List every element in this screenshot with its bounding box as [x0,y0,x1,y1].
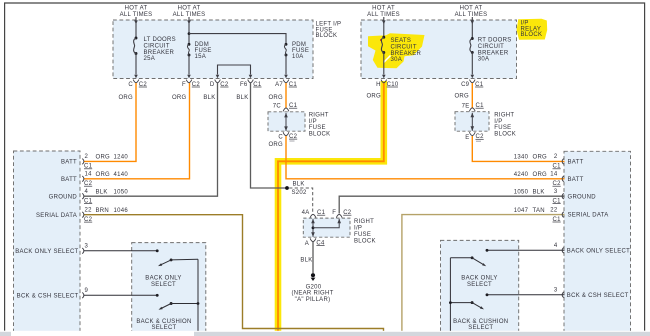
feed wire into RT DOORS breaker [471,17,475,39]
svg-text:SELECT: SELECT [151,282,176,288]
svg-text:ORG: ORG [533,172,548,178]
svg-text:BREAKER: BREAKER [144,50,175,56]
svg-text:BLOCK: BLOCK [309,131,331,137]
internal wiring of ground fuse box [311,219,341,237]
wire BLK 1050 from right panel GROUND to F terminal [339,196,564,213]
svg-text:25A: 25A [144,56,156,62]
svg-text:FUSE: FUSE [195,48,212,54]
svg-text:1340: 1340 [514,155,529,161]
circuit breaker SEATS 30A [381,36,421,75]
svg-text:ORG: ORG [172,95,187,101]
svg-text:BLK: BLK [300,258,312,264]
svg-text:4: 4 [554,243,558,249]
white slash gap in seats highlight [384,56,391,63]
svg-text:1240: 1240 [114,155,129,161]
svg-text:ORG: ORG [268,95,283,101]
terminal F at fuse block edge [182,75,200,88]
svg-text:(NEAR RIGHT: (NEAR RIGHT [291,291,333,297]
connector C1 label at 7E box [476,103,485,109]
svg-text:BCK & CSH SELECT: BCK & CSH SELECT [567,293,629,299]
svg-text:HOT AT: HOT AT [372,6,395,12]
terminal A7 at fuse block edge [275,75,297,88]
svg-text:14: 14 [550,172,558,178]
svg-text:ORG: ORG [533,155,548,161]
svg-text:ORG: ORG [268,142,283,148]
highlighted ORG wire from seats breaker (yellow band) [278,81,384,331]
svg-text:HOT AT: HOT AT [460,6,483,12]
wire label ORG 7C [268,95,283,109]
right I/P fuse block label (7C box) [309,113,331,138]
wire TAN 1047 from right panel SERIAL DATA [402,215,565,332]
left seat switch dashed box [132,243,206,333]
svg-text:A7: A7 [275,82,283,88]
right I/P fuse block label (7E box) [494,113,516,138]
svg-text:BATT: BATT [568,177,584,183]
wire ORG from F to left panel BATT 14 [84,83,190,179]
left body control panel dashed box [14,151,81,332]
svg-text:SELECT: SELECT [468,325,493,331]
svg-text:ALL TIMES: ALL TIMES [173,12,206,18]
wire from left panel pin 3 to left switch [84,249,159,252]
svg-text:ALL TIMES: ALL TIMES [120,12,153,18]
svg-text:ORG: ORG [118,95,133,101]
hot at all times label 4 [455,6,488,18]
svg-text:SERIAL DATA: SERIAL DATA [36,213,77,219]
svg-text:SELECT: SELECT [151,325,176,331]
hot at all times label 2 [173,6,206,18]
svg-text:14: 14 [85,172,93,178]
svg-text:7E: 7E [462,103,470,109]
terminal A out of ground fuse box [305,238,325,247]
ground G200 [291,273,333,303]
junction node in fuse block [188,32,191,35]
svg-text:TAN: TAN [533,208,545,214]
left I/P fuse block dashed box (top-left) [113,20,313,79]
left panel BATT row pin 2 [61,154,128,170]
dashed lead from S202 to 4A [289,188,313,214]
highlighter blob over SEATS circuit breaker [368,33,425,68]
svg-text:ORG: ORG [96,155,111,161]
wire label ORG 7E [454,94,469,110]
left panel SERIAL DATA row pin 22 [36,207,128,223]
svg-text:1050: 1050 [514,189,529,195]
wire ORG from C9 to 7E fuse block connector [471,83,473,108]
wire ORG 4240 from 7C box to right panel BATT 14 [286,136,565,179]
svg-text:CIRCUIT: CIRCUIT [391,44,417,50]
svg-text:BACK ONLY SELECT: BACK ONLY SELECT [15,249,78,255]
feed wire into DDM fuse [187,17,191,44]
hot at all times label 1 [120,6,153,18]
svg-text:LT DOORS: LT DOORS [144,37,176,43]
svg-text:BLK: BLK [96,189,108,195]
terminal D at fuse block edge [210,75,229,88]
circuit breaker LT DOORS 25A [134,37,176,75]
svg-text:BRN: BRN [96,208,110,214]
svg-text:1046: 1046 [114,208,129,214]
right I/P fuse block small box (top-center, 7C) [268,112,305,131]
right panel BATT row pin 2 [514,154,584,170]
wire BLK from F6 to splice S202 [251,83,288,188]
connector C1 label at 7C box [289,103,298,109]
svg-text:4: 4 [85,189,89,195]
svg-text:GROUND: GROUND [568,194,597,200]
right panel BCK &amp; CSH SELECT row pin 3 [554,288,629,299]
fuse PDM 10A [284,42,309,75]
feed wire into SEATS breaker [382,17,386,37]
svg-text:15A: 15A [195,54,207,60]
svg-text:7C: 7C [273,103,282,109]
svg-text:CIRCUIT: CIRCUIT [478,44,504,50]
right back & cushion select switch [450,301,508,331]
right back only select switch [450,256,497,287]
svg-text:4240: 4240 [514,172,529,178]
svg-text:BACK ONLY: BACK ONLY [461,276,497,282]
terminal H at relay block edge [376,75,399,88]
svg-text:A: A [305,241,309,247]
svg-text:BREAKER: BREAKER [478,50,509,56]
svg-text:2: 2 [85,154,89,160]
svg-text:PDM: PDM [292,42,306,48]
svg-text:ORG: ORG [366,94,381,100]
svg-text:30A: 30A [391,57,403,63]
wire from right switch to right panel pin 4 [486,249,565,252]
svg-text:BREAKER: BREAKER [391,51,422,57]
svg-text:C9: C9 [461,82,470,88]
svg-text:BLK: BLK [236,95,248,101]
left panel BCK &amp; CSH SELECT row pin 9 [17,288,89,299]
svg-text:"A" PILLAR): "A" PILLAR) [295,297,331,303]
right panel GROUND row pin 3 [514,189,596,205]
svg-text:BLK: BLK [203,95,215,101]
splice S202 [285,182,307,196]
wire ORG 1340 from 7E box to right panel BATT 2 [472,136,564,161]
svg-text:30A: 30A [478,57,490,63]
svg-text:BACK ONLY SELECT: BACK ONLY SELECT [567,248,630,254]
highlighter mark on I/P relay block label [517,19,548,40]
left switch bus wire [197,259,200,332]
svg-text:C: C [278,135,283,141]
wire ORG from A7 to 7C fuse block connector [285,83,287,109]
svg-text:S202: S202 [292,190,308,196]
wire from right switch to right panel pin 3 [486,293,565,296]
svg-text:BACK & CUSHION: BACK & CUSHION [453,319,508,325]
svg-text:I/P: I/P [309,119,317,125]
svg-text:BCK & CSH SELECT: BCK & CSH SELECT [17,293,79,299]
svg-text:9: 9 [85,288,89,294]
svg-text:DDM: DDM [195,42,210,48]
wire BLK from A to ground G200 [312,242,314,273]
internal wire through 7C box [284,113,288,131]
svg-text:I/P: I/P [494,119,502,125]
svg-text:4A: 4A [302,210,310,216]
svg-text:3: 3 [554,189,558,195]
hot at all times label 3 [367,6,400,18]
svg-text:22: 22 [550,207,558,213]
right seat switch dashed box [441,240,519,332]
terminal C at fuse block edge [128,75,147,88]
right panel SERIAL DATA row pin 22 [514,207,609,223]
left panel BATT row pin 14 [61,172,128,188]
svg-text:FUSE: FUSE [494,125,511,131]
terminal F6 at fuse block edge [240,75,262,88]
right I/P fuse block small box (top-right, 7E) [455,112,489,132]
right body control panel dashed box [564,151,631,332]
svg-text:FUSE: FUSE [354,232,371,238]
svg-text:4140: 4140 [114,172,129,178]
svg-text:E: E [465,135,469,141]
right switch bus wire [449,258,452,332]
svg-text:I/P: I/P [354,226,362,232]
svg-text:BLOCK: BLOCK [494,131,516,137]
wire BLK from D to left panel GROUND 4 [84,83,218,196]
internal ground bracket joining D and F6 [218,65,251,75]
svg-text:3: 3 [554,288,558,294]
terminal into 7C box top [283,108,289,112]
left panel GROUND row pin 4 [49,189,129,205]
terminal into 7E box top [469,108,475,112]
right I/P fuse block small box (center, ground) [303,218,350,237]
highlighted ORG wire core [278,83,384,331]
internal wire through 7E box [471,113,475,131]
svg-text:ALL TIMES: ALL TIMES [367,12,400,18]
svg-text:RIGHT: RIGHT [494,113,514,119]
feed wire into LT DOORS breaker [134,17,138,38]
svg-text:FUSE: FUSE [309,125,326,131]
left I/P fuse block name label [316,21,342,39]
terminal 4A into ground fuse box [302,210,326,218]
svg-text:22: 22 [85,207,93,213]
right panel BATT row pin 14 [514,172,584,188]
terminal C9 at relay block edge [461,75,484,88]
circuit breaker RT DOORS 30A [470,37,512,74]
svg-text:ORG: ORG [454,94,469,100]
svg-text:F6: F6 [240,82,248,88]
svg-text:F: F [182,82,186,88]
svg-text:H: H [376,82,381,88]
svg-text:BATT: BATT [568,160,584,166]
right I/P fuse block label (ground box) [354,219,376,245]
svg-text:2: 2 [554,154,558,160]
svg-text:ALL TIMES: ALL TIMES [455,12,488,18]
red dot artifact near seats breaker [380,39,382,41]
svg-text:FUSE: FUSE [292,48,309,54]
left panel BACK ONLY SELECT row pin 3 [15,244,88,255]
wire ORG from C to left panel BATT 2 [84,83,137,161]
svg-text:BACK ONLY: BACK ONLY [145,276,181,282]
svg-text:CIRCUIT: CIRCUIT [144,43,170,49]
wire from left panel pin 9 to left switch [84,294,159,297]
svg-text:F: F [332,210,336,216]
svg-text:ORG: ORG [96,172,111,178]
left back only select switch [145,258,198,287]
svg-text:RT DOORS: RT DOORS [478,38,512,44]
svg-text:SERIAL DATA: SERIAL DATA [568,213,609,219]
svg-text:BATT: BATT [61,160,77,166]
left back & cushion select switch [136,302,198,331]
svg-text:BLK: BLK [533,189,545,195]
svg-text:BACK & CUSHION: BACK & CUSHION [136,319,191,325]
svg-text:10A: 10A [292,54,304,60]
svg-text:RIGHT: RIGHT [354,219,374,225]
svg-text:BLOCK: BLOCK [521,32,543,38]
fuse DDM 15A [187,42,211,75]
I/P relay block name label [521,21,543,38]
terminal E out of 7E box bottom [465,132,484,141]
svg-text:HOT AT: HOT AT [178,6,201,12]
svg-text:SELECT: SELECT [467,282,492,288]
svg-text:GROUND: GROUND [49,194,78,200]
bottom scrollbar [0,331,650,336]
svg-text:D: D [210,82,215,88]
svg-text:BATT: BATT [61,177,77,183]
svg-text:HOT AT: HOT AT [125,6,148,12]
svg-text:1050: 1050 [114,189,129,195]
svg-text:G200: G200 [306,284,322,290]
svg-text:SEATS: SEATS [391,38,412,44]
terminal C out of 7C box bottom [278,132,297,141]
svg-text:BLOCK: BLOCK [354,239,376,245]
svg-text:BLK: BLK [293,182,305,188]
terminal F into ground fuse box [332,210,352,218]
wire from junction to PDM fuse [189,34,286,45]
wire BRN 1046 from left panel SERIAL DATA [84,215,384,332]
svg-text:C: C [128,82,133,88]
svg-text:BLOCK: BLOCK [316,33,338,39]
I/P relay block dashed box (top-right) [361,20,517,79]
svg-text:1047: 1047 [514,208,529,214]
svg-text:3: 3 [85,244,89,250]
right panel BACK ONLY SELECT row pin 4 [554,243,630,254]
svg-text:RIGHT: RIGHT [309,113,329,119]
